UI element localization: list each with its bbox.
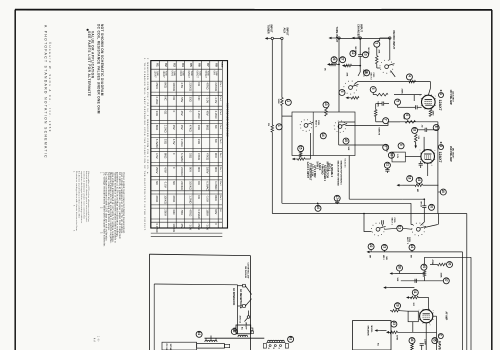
svg-text:C205: C205 [317,120,319,126]
svg-text:5Y3GT: 5Y3GT [204,71,206,79]
resistor R15 [299,151,302,157]
wire V1 grid left [394,94,422,96]
wire right bus x462.5 [462,252,464,350]
svg-text:6.3V IN YELLOW: 6.3V IN YELLOW [247,263,249,279]
svg-text:(B) 12AX7: (B) 12AX7 [452,148,455,159]
svg-text:2. MEASURED FROM PIN 7 OF V4.: 2. MEASURED FROM PIN 7 OF V4. 3. MEASURE… [146,58,149,175]
wire aux to selector box [282,115,292,117]
tape input terminal [329,37,332,40]
selector wafer divider [312,112,314,156]
svg-text:47K: 47K [378,50,381,54]
ref 26 [331,57,337,63]
tone switch SW3A treble [376,227,380,231]
svg-text:6.3VAC: 6.3VAC [155,223,159,232]
wire v3 cathode down [425,323,427,350]
svg-text:AF AMP: AF AMP [445,312,448,321]
svg-text:MR 100K: MR 100K [354,47,356,56]
bus junction dots [317,203,319,205]
svg-text:220KΩ: 220KΩ [180,181,184,190]
svg-text:7: 7 [434,96,436,97]
svg-text:©Howard W. Sams & Co., Inc. 19: ©Howard W. Sams & Co., Inc. 1959 [48,42,52,133]
svg-text:18: 18 [408,176,412,180]
ref 23 [381,244,387,250]
svg-text:47KΩ: 47KΩ [172,195,176,202]
capacitor C2b [381,102,383,106]
resistor R6 [405,121,415,124]
svg-text:33Ω: 33Ω [163,139,167,144]
svg-text:NC: NC [214,139,218,143]
svg-text:5: 5 [340,91,344,93]
svg-text:12AX7: 12AX7 [153,71,156,79]
svg-text:250V: 250V [155,82,159,89]
svg-text:90V: 90V [214,167,218,172]
svg-text:45V: 45V [180,111,184,116]
resistor R18 [415,184,423,187]
svg-text:8KΩ: 8KΩ [214,195,218,201]
ref 7c [383,144,389,150]
resistor R26 shunt [327,63,330,66]
svg-text:PC-120: PC-120 [165,344,167,350]
resistor R4 on bus [409,80,416,83]
svg-text:6.3VAC: 6.3VAC [155,139,159,148]
capacitor C37 [414,279,416,283]
capacitor C1 [358,54,362,56]
svg-text:15: 15 [299,146,303,150]
svg-text:11: 11 [385,163,389,167]
svg-text:V2: V2 [164,63,168,67]
svg-text:ON-OFF: ON-OFF [244,322,246,330]
svg-text:250V: 250V [163,209,167,216]
svg-text:6.3VAC: 6.3VAC [180,153,184,162]
svg-text:1 M: 1 M [417,136,419,140]
svg-text:5: 5 [371,88,375,90]
wire phono to switch [389,38,391,60]
svg-text:19: 19 [417,178,421,182]
svg-text:Fil.: Fil. [219,209,221,212]
svg-text:12AX7: 12AX7 [438,152,442,163]
bottom bus y338 [205,337,265,339]
ref 7b [383,118,389,124]
svg-text:250V: 250V [155,167,159,174]
svg-text:AC INTERLOCK: AC INTERLOCK [232,288,235,306]
output transformer hatch [267,342,286,344]
svg-text:(A) 12AX7: (A) 12AX7 [451,92,454,103]
resistor R30 [423,271,426,277]
svg-text:4: 4 [407,75,411,77]
wire y332.3 [398,331,437,333]
rotary switch SW1A [349,86,353,90]
resistor R33 [386,331,389,334]
ref 13d [363,52,369,58]
interlock plug box [236,325,251,334]
grid resistor R7 vertical [414,134,417,142]
wire phono horizontal [380,37,390,39]
svg-text:TAPE INPUT: TAPE INPUT [335,27,339,43]
sw1b lever to bus [391,71,396,77]
svg-text:-1.0V: -1.0V [205,195,209,202]
ref 21 [397,225,403,231]
svg-text:SELECTOR SW VIEWED: SELECTOR SW VIEWED [337,161,339,187]
wire bus A corner down [410,203,412,224]
svg-text:56K: 56K [347,147,349,151]
ref 22 [368,244,374,250]
ref 8 [433,125,439,131]
svg-text:8: 8 [434,126,438,128]
ref 24 [409,244,415,250]
svg-text:26: 26 [332,57,336,61]
svg-text:21: 21 [398,226,402,230]
svg-text:31: 31 [413,290,417,294]
wire plate row y121.8 [389,121,438,123]
wire bus B y213.5 [272,213,467,215]
svg-text:14: 14 [321,133,325,137]
circled letter C [438,334,443,339]
svg-text:12AX7: 12AX7 [162,71,165,79]
svg-text:0Ω: 0Ω [163,111,167,115]
wire x437.9 vertical interstage [437,122,439,214]
capacitor C20 vertical [423,199,425,205]
svg-text:8KΩ: 8KΩ [205,125,209,131]
ref 1 [276,124,282,130]
wire y273.5 feedback [390,272,393,275]
svg-text:Proper output load connected d: Proper output load connected during meas… [122,172,125,234]
rotary switch SW1B phono [385,65,389,69]
svg-text:4. A: 4. A [93,338,96,342]
svg-text:45V: 45V [205,111,209,116]
svg-text:6AV6: 6AV6 [179,71,182,77]
page border frame [15,9,492,11]
svg-text:45: 45 [232,329,236,333]
svg-text:33Ω: 33Ω [155,111,159,116]
svg-text:.55V: .55V [180,209,184,215]
ref 18 [407,176,413,182]
ref 27 [340,57,346,63]
wire input bus y38.4 [340,37,359,39]
svg-text:0Ω: 0Ω [197,195,201,199]
resistor below SW1A [346,97,349,100]
svg-text:225V: 225V [403,115,405,120]
svg-text:-1.0V: -1.0V [205,97,209,104]
svg-text:C205: C205 [408,237,410,243]
ref 35 [432,338,438,344]
svg-text:NC: NC [155,181,159,185]
svg-text:1 - 6 -: 1 - 6 - [97,336,99,342]
t2 terminal box right [285,344,288,349]
grid block box [408,311,418,322]
svg-text:6: 6 [433,150,435,151]
plug box tabs [234,328,236,331]
tube V1 12AX7 1st pre-amp [422,95,436,109]
ref 12d [350,51,356,57]
svg-text:27: 27 [341,57,345,61]
svg-text:560K M: 560K M [377,128,379,136]
ref 36 [447,262,453,268]
svg-text:18: 18 [413,128,417,132]
wire tape input vertical [335,37,338,39]
svg-text:-1.0V: -1.0V [163,181,167,188]
capacitor C3 coupling [418,129,425,131]
resistor R34 [411,344,414,350]
svg-text:AC RECEPTACLE: AC RECEPTACLE [239,289,242,309]
svg-text:MR: MR [416,189,418,193]
svg-text:MR 50K: MR 50K [367,48,369,56]
svg-text:TUBE: TUBE [173,71,175,77]
svg-text:TUBE: TUBE [207,71,209,77]
resistor R27 shunt [342,64,345,67]
svg-text:SECT 2: SECT 2 [362,70,364,78]
svg-text:TUBE: TUBE [165,71,167,77]
svg-text:PHONO INPUT: PHONO INPUT [392,31,396,50]
svg-text:4.5V: 4.5V [180,82,184,88]
parts note bullet [87,29,89,31]
ref 10 [388,152,394,158]
ref 43 [288,336,294,342]
ref 15b [343,138,349,144]
ref 37 [443,278,449,284]
changer input terminal [352,37,355,40]
svg-text:185V: 185V [205,209,209,216]
ref 19 [440,189,446,195]
svg-text:43: 43 [289,337,293,341]
svg-text:100KΩ: 100KΩ [172,223,176,232]
resistor R1 on tuner line [271,125,274,132]
svg-text:47KΩ: 47KΩ [189,209,193,216]
ref 15 [298,146,304,152]
svg-text:37: 37 [444,278,448,282]
svg-text:REFERENCE READINGS: REFERENCE READINGS [226,103,230,137]
ref 45 [231,329,237,335]
wire r29 to grid box [399,310,408,313]
ac plug upper [243,284,246,287]
power transformer plate box [197,344,225,349]
svg-text:90V: 90V [214,209,218,214]
wire aux input vertical lower [281,106,283,204]
svg-text:2.2KΩ: 2.2KΩ [180,139,184,147]
power inner box [154,283,237,286]
capacitor C34 [420,343,424,345]
svg-text:V3: V3 [172,63,176,67]
wire right bus x466.8 [466,214,468,351]
svg-text:10-TV 3: 10-TV 3 [328,163,330,172]
svg-text:-1.0V: -1.0V [189,223,193,230]
svg-text:45V: 45V [180,125,184,130]
wire y199.2 to tone [349,198,402,200]
ref 33 [391,321,397,327]
resistor R3 [376,56,379,64]
svg-text:47KΩ: 47KΩ [205,153,209,160]
interlock coil [238,335,248,337]
svg-text:2: 2 [419,95,421,96]
output transformer T2 primary coil [268,340,285,342]
svg-text:6 5 4 3 2 1: 6 5 4 3 2 1 [344,159,347,168]
svg-text:V5: V5 [189,63,193,67]
svg-text:V1: V1 [155,63,159,67]
svg-text:5: 5 [395,100,399,102]
svg-text:C205: C205 [393,218,395,224]
svg-text:220KΩ: 220KΩ [180,167,184,176]
wire changer to switch [359,66,361,72]
svg-text:38: 38 [397,265,401,269]
selector wafer sub lines [339,121,355,123]
svg-text:0Ω: 0Ω [197,181,201,185]
wire t1 leads [205,338,207,340]
ref 6 [404,113,410,119]
svg-text:NC: NC [172,181,176,185]
tuner input terminal [265,37,268,40]
capacitor C11b [385,169,389,171]
svg-text:33Ω: 33Ω [197,125,201,130]
electrolytic block box [392,152,405,162]
svg-text:TUBE: TUBE [190,71,192,77]
rotary switch SW2B selector [338,125,342,129]
ac plug on box edge [251,331,254,334]
svg-text:24: 24 [410,245,414,249]
filter choke box [162,342,197,350]
ref 17 [334,195,340,201]
svg-text:9: 9 [399,144,403,146]
svg-text:470K: 470K [395,335,398,340]
svg-text:V6: V6 [198,63,202,67]
svg-text:-1.0V: -1.0V [205,223,209,230]
capacitor C2 [415,105,417,109]
capacitor C17 [335,200,339,202]
svg-text:VALUE OR APPLICATION: VALUE OR APPLICATION [90,31,94,79]
wire to V1 top [430,82,432,88]
wire grid box down [412,322,414,333]
svg-text:A PHOTOFACT STANDARD NOTATION: A PHOTOFACT STANDARD NOTATION SCHEMATIC [44,25,48,159]
svg-text:TUBE: TUBE [182,71,184,77]
wire tone interconnect [384,228,397,229]
svg-text:16: 16 [316,206,320,210]
wire stair to SW3B [411,224,413,226]
svg-text:1: 1 [417,310,419,311]
svg-text:8: 8 [430,165,432,166]
svg-text:13: 13 [324,102,328,106]
ac plug lower [243,305,246,308]
ac interlock vertical [237,285,239,334]
svg-text:SECT 1: SECT 1 [315,120,317,128]
svg-text:0Ω: 0Ω [197,82,201,86]
svg-text:47K: 47K [346,73,349,77]
svg-text:4.5V: 4.5V [155,153,159,159]
phono input node [389,37,391,39]
circled letter A [439,93,444,98]
svg-text:MODEL: MODEL [370,326,372,334]
svg-text:33Ω: 33Ω [172,209,176,214]
svg-text:45V: 45V [180,223,184,228]
svg-text:8Ω: 8Ω [376,343,378,346]
resistor R31 [406,296,409,299]
svg-text:DC COIL RESISTANCE VALUES UNDE: DC COIL RESISTANCE VALUES UNDER ONE OHM [96,24,100,114]
ref 38 [397,265,403,271]
svg-text:90V: 90V [214,153,218,158]
ref 3 loudness control [379,38,381,41]
svg-text:ON IN BLUE: ON IN BLUE [244,266,246,279]
ref 4 [406,74,412,80]
svg-text:100KΩ: 100KΩ [189,181,193,190]
wire grid bus y81.5 [354,81,431,84]
svg-text:23: 23 [382,245,386,249]
svg-text:1: 1 [277,125,281,127]
svg-text:6.3VAC: 6.3VAC [197,209,201,218]
svg-text:4.5V: 4.5V [172,139,176,145]
cathode resistor R4 1500 [429,110,432,117]
svg-text:20: 20 [429,205,433,209]
wire feed y257.3 [425,256,472,258]
wire aux input vertical upper [281,40,283,98]
svg-text:6AV6: 6AV6 [170,71,173,77]
svg-text:1.2V: 1.2V [396,154,398,159]
svg-text:6V6GT: 6V6GT [187,71,189,79]
svg-text:6.3VAC: 6.3VAC [205,181,209,190]
svg-text:7: 7 [384,119,388,121]
svg-text:220KΩ: 220KΩ [214,82,218,91]
tone switch SW3B bass [416,227,420,231]
svg-text:TUBE: TUBE [221,62,223,68]
wire to v3 top [428,298,430,310]
svg-text:.55V: .55V [180,97,184,103]
svg-text:MR 10: MR 10 [419,202,421,208]
svg-text:56K: 56K [396,278,398,282]
svg-text:NC: NC [214,125,218,129]
svg-text:INPUT: INPUT [285,28,289,36]
ref 31 [412,290,418,296]
svg-text:100KΩ: 100KΩ [172,82,176,91]
svg-text:30: 30 [422,264,426,268]
wire ref5 stub [397,105,399,107]
svg-text:15: 15 [344,138,348,142]
svg-text:8KΩ: 8KΩ [163,82,167,88]
resistor R36 [438,263,446,266]
svg-text:47KΩ: 47KΩ [197,153,201,160]
svg-text:100K: 100K [277,99,279,105]
svg-text:V8: V8 [214,63,218,67]
svg-text:44: 44 [197,332,201,336]
svg-text:0Ω: 0Ω [172,97,176,101]
svg-text:8KΩ: 8KΩ [163,153,167,159]
svg-text:3-TV 2 3.5K: 3-TV 2 3.5K [311,164,313,177]
wire to V2 grid [423,130,425,152]
svg-text:35: 35 [433,338,437,342]
svg-text:1500: 1500 [432,111,434,117]
ref 5d [339,90,345,96]
ref 34 [409,338,415,344]
ground wire with resistor [292,158,295,161]
svg-text:29: 29 [395,303,399,307]
svg-text:SECT 1: SECT 1 [391,218,393,226]
terminal box small [224,344,229,347]
wire v2 cathode down [427,163,429,176]
wire wafer2 bottom exit [355,144,387,146]
ref 28 [364,70,370,76]
wire tuner input vertical [270,37,272,39]
speaker arrow [375,329,378,332]
svg-text:-1.0V: -1.0V [214,97,218,104]
svg-text:2.2KΩ: 2.2KΩ [214,111,218,119]
svg-text:SPEAKER: SPEAKER [367,326,370,337]
svg-text:Values within ±20% unless othe: Values within ±20% unless otherwise note… [87,171,90,223]
svg-text:INPUT: INPUT [360,24,364,32]
svg-text:TUBE: TUBE [198,71,200,77]
svg-text:3: 3 [375,42,379,44]
svg-text:11-SPARE 2: 11-SPARE 2 [330,164,333,178]
wire bus D y287.6 [383,286,386,289]
svg-text:1.2MΩ: 1.2MΩ [214,181,218,189]
tube V3 output 6AV6 [420,310,433,323]
wire right bus x471.0 [470,257,472,350]
svg-text:13: 13 [363,52,367,56]
svg-text:22: 22 [369,244,373,248]
